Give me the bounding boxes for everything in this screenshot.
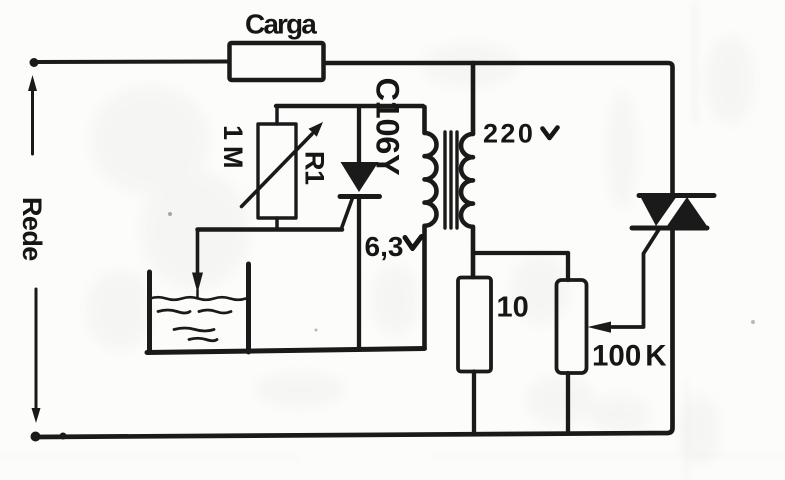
svg-text:220: 220 <box>483 119 535 149</box>
svg-text:100K: 100K <box>592 340 667 373</box>
svg-text:R1: R1 <box>300 151 330 185</box>
svg-text:1M: 1M <box>218 125 248 175</box>
svg-text:C106Y: C106Y <box>370 78 406 176</box>
svg-text:Carga: Carga <box>245 9 317 40</box>
svg-text:6,3: 6,3 <box>365 231 404 262</box>
svg-text:Rede: Rede <box>17 197 47 261</box>
svg-text:10: 10 <box>497 292 529 324</box>
